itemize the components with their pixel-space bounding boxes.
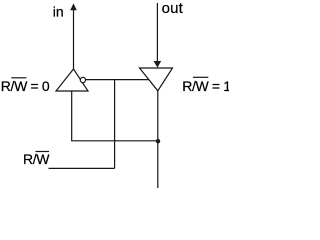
svg-text:R/W = 1: R/W = 1: [182, 78, 229, 94]
svg-text:R/W = 0: R/W = 0: [1, 78, 50, 94]
svg-text:R/W: R/W: [23, 151, 50, 167]
svg-text:out: out: [162, 0, 184, 17]
svg-text:in: in: [53, 4, 64, 20]
